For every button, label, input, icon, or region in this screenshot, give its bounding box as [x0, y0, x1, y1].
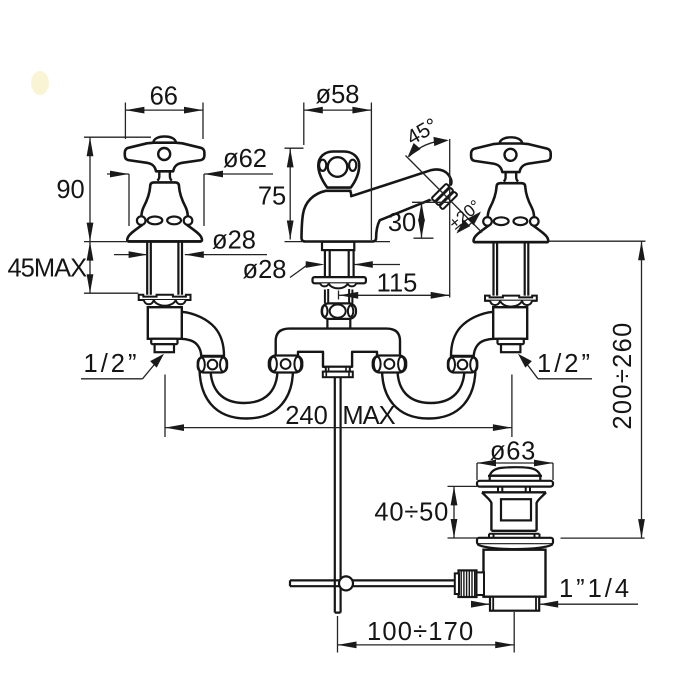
svg-text:40÷50: 40÷50: [374, 499, 449, 527]
svg-text:MAX: MAX: [342, 402, 395, 430]
svg-text:ø28: ø28: [212, 227, 256, 255]
svg-text:1/2”: 1/2”: [84, 350, 140, 378]
svg-text:ø28: ø28: [243, 256, 287, 284]
svg-text:ø58: ø58: [316, 81, 360, 109]
svg-text:1”1/4: 1”1/4: [559, 575, 632, 603]
svg-text:66: 66: [150, 83, 178, 111]
svg-text:100÷170: 100÷170: [367, 618, 475, 646]
svg-text:90: 90: [56, 176, 84, 204]
svg-text:200÷260: 200÷260: [609, 321, 637, 429]
svg-text:45MAX: 45MAX: [7, 255, 87, 283]
svg-text:1/2”: 1/2”: [537, 350, 593, 378]
svg-text:115: 115: [377, 270, 418, 298]
svg-text:240: 240: [285, 402, 328, 430]
svg-text:ø62: ø62: [223, 145, 267, 173]
svg-text:75: 75: [258, 183, 286, 211]
svg-text:ø63: ø63: [490, 438, 536, 466]
svg-text:30: 30: [388, 209, 416, 237]
